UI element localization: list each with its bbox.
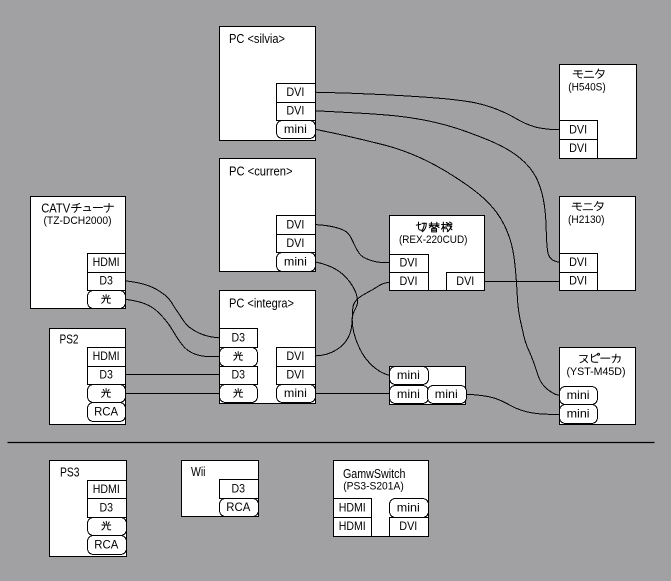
- svg-text:DVI: DVI: [286, 349, 304, 363]
- svg-text:HDMI: HDMI: [339, 519, 366, 533]
- svg-text:DVI: DVI: [400, 274, 418, 288]
- svg-text:HDMI: HDMI: [93, 482, 120, 496]
- svg-text:DVI: DVI: [400, 256, 418, 270]
- svg-text:DVI: DVI: [286, 236, 304, 250]
- svg-text:PC <integra>: PC <integra>: [229, 297, 294, 311]
- svg-text:D3: D3: [231, 331, 245, 345]
- svg-text:D3: D3: [99, 368, 113, 382]
- svg-text:(YST-M45D): (YST-M45D): [567, 366, 626, 378]
- svg-text:D3: D3: [100, 500, 114, 514]
- svg-text:PS3: PS3: [60, 466, 80, 480]
- svg-text:HDMI: HDMI: [339, 501, 366, 515]
- svg-text:RCA: RCA: [94, 537, 118, 551]
- svg-text:DVI: DVI: [456, 274, 474, 288]
- svg-text:mini: mini: [397, 368, 420, 382]
- svg-text:DVI: DVI: [286, 85, 304, 99]
- svg-text:RCA: RCA: [226, 500, 250, 514]
- svg-text:DVI: DVI: [286, 368, 304, 382]
- svg-text:D3: D3: [232, 482, 246, 496]
- svg-text:DVI: DVI: [399, 519, 417, 533]
- svg-text:DVI: DVI: [569, 123, 587, 137]
- svg-text:DVI: DVI: [286, 104, 304, 118]
- svg-text:(H540S): (H540S): [568, 82, 606, 94]
- svg-text:CATV: CATV: [41, 202, 71, 216]
- svg-text:RCA: RCA: [94, 405, 118, 419]
- svg-text:HDMI: HDMI: [93, 349, 120, 363]
- svg-text:DVI: DVI: [286, 218, 304, 232]
- svg-text:HDMI: HDMI: [93, 255, 120, 269]
- svg-text:mini: mini: [397, 387, 420, 401]
- svg-text:mini: mini: [284, 122, 307, 136]
- svg-text:mini: mini: [567, 406, 590, 420]
- svg-text:mini: mini: [397, 501, 420, 515]
- svg-text:DVI: DVI: [569, 274, 587, 288]
- svg-text:PC <silvia>: PC <silvia>: [229, 32, 285, 46]
- svg-text:(H2130): (H2130): [568, 214, 605, 226]
- svg-text:PC <curren>: PC <curren>: [229, 165, 293, 179]
- svg-text:(REX-220CUD): (REX-220CUD): [399, 234, 468, 246]
- svg-text:mini: mini: [284, 255, 307, 269]
- svg-text:DVI: DVI: [569, 141, 587, 155]
- svg-text:GamwSwitch: GamwSwitch: [343, 467, 406, 481]
- svg-text:mini: mini: [567, 388, 590, 402]
- svg-text:mini: mini: [284, 386, 307, 400]
- svg-text:(PS3-S201A): (PS3-S201A): [343, 480, 404, 492]
- svg-text:D3: D3: [99, 274, 113, 288]
- svg-text:mini: mini: [435, 387, 458, 401]
- svg-text:D3: D3: [231, 368, 245, 382]
- svg-text:PS2: PS2: [60, 333, 79, 347]
- svg-text:DVI: DVI: [569, 255, 587, 269]
- svg-text:(TZ-DCH2000): (TZ-DCH2000): [44, 215, 112, 227]
- svg-text:Wii: Wii: [191, 465, 206, 479]
